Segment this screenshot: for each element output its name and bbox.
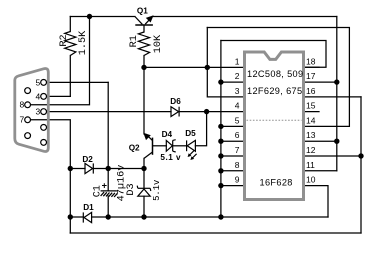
svg-text:D1: D1 xyxy=(83,203,94,212)
svg-text:16F628: 16F628 xyxy=(260,178,293,188)
resistor R1 xyxy=(138,32,149,56)
svg-text:5: 5 xyxy=(235,115,240,125)
svg-text:8: 8 xyxy=(19,100,24,110)
svg-text:5.1v: 5.1v xyxy=(152,180,162,201)
wire C1 riser x108 (pin5 down to D2 row, C1, mid bus) xyxy=(107,82,109,217)
svg-text:1: 1 xyxy=(235,56,240,66)
junction riser A / pin13 xyxy=(334,139,339,144)
junction D2 row / C1 xyxy=(106,166,111,171)
svg-text:5: 5 xyxy=(35,77,40,87)
wire pin 12 stub xyxy=(304,155,361,157)
DB9 pin 1 xyxy=(41,140,47,146)
svg-text:D5: D5 xyxy=(185,129,196,138)
diode D3 (zener) xyxy=(137,186,151,197)
capacitor C1 xyxy=(101,190,117,192)
junction mid bus left xyxy=(68,214,73,219)
svg-text:5.1 v: 5.1 v xyxy=(160,153,181,162)
svg-text:D3: D3 xyxy=(126,183,137,195)
wire net VDD rail (to pin 14) xyxy=(207,28,349,127)
junction bus / pin8 xyxy=(218,168,223,173)
svg-text:D6: D6 xyxy=(170,97,181,106)
IC U1 body xyxy=(245,52,304,200)
DB9 connector shell xyxy=(15,68,49,151)
wire pin 15 short stub xyxy=(304,111,319,113)
svg-text:4: 4 xyxy=(235,101,240,111)
junction mid bus / C1 xyxy=(106,214,111,219)
resistor R2 xyxy=(65,32,76,56)
svg-text:12F629, 675: 12F629, 675 xyxy=(247,86,302,96)
DB9 pin 4 xyxy=(41,94,47,100)
svg-text:47µ16v: 47µ16v xyxy=(116,165,127,202)
transistor Q1 xyxy=(135,17,153,26)
svg-text:13: 13 xyxy=(306,130,316,140)
DB9 pin 6 xyxy=(25,133,31,139)
junction riser C / pin12 xyxy=(358,153,363,158)
wire net riser x207 (VDD rail to pin1 row to pin 3) xyxy=(207,28,244,97)
DB9 pin 7 xyxy=(25,117,31,123)
svg-text:2: 2 xyxy=(235,71,240,81)
junction D6 / pin4 xyxy=(204,109,209,114)
wire mid bus y217 xyxy=(70,216,328,218)
svg-text:Q2: Q2 xyxy=(129,143,140,152)
wire right riser C (pin 16 down to bottom bus) xyxy=(360,97,362,233)
svg-text:12C508, 509: 12C508, 509 xyxy=(247,69,303,79)
wire pin 5 stub xyxy=(221,125,244,127)
wire D2 row xyxy=(70,168,144,170)
diode D5 (LED) xyxy=(187,140,197,159)
svg-text:3: 3 xyxy=(235,86,240,96)
wire riser pin4-dot down to D5 xyxy=(195,112,206,146)
svg-text:14: 14 xyxy=(306,115,316,125)
diode D4 (zener) xyxy=(166,140,175,152)
capacitor C1 hatched plate xyxy=(101,192,118,197)
wire top rail right segment (Q1 emitter to right riser) xyxy=(153,16,337,18)
svg-text:D2: D2 xyxy=(82,155,93,164)
svg-text:R2: R2 xyxy=(59,34,70,46)
svg-text:15: 15 xyxy=(306,101,316,111)
junction bus / pin9 xyxy=(218,183,223,188)
wire R2 top lead xyxy=(69,17,71,32)
svg-text:C1: C1 xyxy=(93,185,104,197)
DB9 pin 9 xyxy=(25,88,31,94)
svg-text:6: 6 xyxy=(235,130,240,140)
svg-text:7: 7 xyxy=(19,115,24,125)
DB9 pin 5 xyxy=(41,80,47,86)
svg-text:Q1: Q1 xyxy=(137,6,148,15)
wire D4 to Q2 base xyxy=(153,145,166,147)
junction D2 row left xyxy=(68,166,73,171)
wire pin 1 row (R1 bottom to IC pin 1) xyxy=(144,66,244,68)
DB9 pin 2 xyxy=(41,125,47,131)
junction mid bus / GND bus riser xyxy=(218,214,223,219)
svg-text:16: 16 xyxy=(306,86,316,96)
DB9 pin 3 xyxy=(41,109,47,115)
wire D5 to D4 link xyxy=(173,145,187,147)
wire pin 7 stub xyxy=(221,155,244,157)
diode D2 xyxy=(85,163,93,173)
wire R1 bottom lead to pin1 row and down to Q2 emitter xyxy=(143,56,145,135)
wire pin 16 stub to riser C xyxy=(304,96,361,98)
svg-text:10: 10 xyxy=(306,175,316,185)
junction bus / pin6 xyxy=(218,139,223,144)
junction bus / pin2 xyxy=(218,79,223,84)
svg-text:10K: 10K xyxy=(153,34,164,53)
wire pin 8 stub xyxy=(221,170,244,172)
svg-text:7: 7 xyxy=(235,145,240,155)
wire DB9 pin4 row to R2 bottom xyxy=(47,95,71,97)
wire pin 9 stub xyxy=(221,185,244,187)
svg-text:1.5K: 1.5K xyxy=(78,30,89,55)
junction top rail / pin8 riser xyxy=(87,14,92,19)
junction D2 row / Q2 collector xyxy=(141,166,146,171)
wire pin 17 stub to riser A xyxy=(304,81,337,83)
transistor Q2 xyxy=(144,134,153,158)
DB9 pin 8 xyxy=(25,102,31,108)
svg-text:11: 11 xyxy=(306,160,315,170)
IC socket divider (8-pin limit, dashed) xyxy=(247,119,302,121)
svg-text:18: 18 xyxy=(306,56,316,66)
wire GND bus riser x221 xyxy=(220,41,222,218)
svg-text:4: 4 xyxy=(35,91,40,101)
wire R2 bottom lead xyxy=(69,56,71,97)
wire pin 18 number underline xyxy=(304,66,319,68)
wire DB9 pin7 row down left column xyxy=(31,120,71,217)
svg-text:D4: D4 xyxy=(162,130,173,139)
junction x207 riser / pin1 row xyxy=(205,65,210,70)
diode D6 xyxy=(171,107,179,117)
wire bottom bus xyxy=(70,232,361,234)
svg-text:17: 17 xyxy=(306,71,316,81)
wire right riser A (top rail down to pin 11) xyxy=(336,17,338,171)
junction bus / pin7 xyxy=(218,153,223,158)
wire D3 leads xyxy=(143,169,145,218)
wire pin 11 stub xyxy=(304,170,337,172)
wire DB9 pin5 row to C1 riser xyxy=(47,81,109,83)
wire left drop to bottom bus xyxy=(69,217,71,233)
junction R1 bottom / pin1 row xyxy=(141,65,146,70)
wire Q2 collector down to D2 row xyxy=(143,158,145,168)
wire TxD row DB9 pin3 to D6 to IC pin 4 xyxy=(47,111,244,113)
junction mid bus / D3 xyxy=(141,214,146,219)
svg-text:9: 9 xyxy=(235,175,240,185)
wire Q1 base lead xyxy=(143,25,145,32)
wire top rail left segment (R2 top to Q1 collector) xyxy=(70,16,135,18)
wire pin 2 stub xyxy=(221,81,244,83)
svg-text:R1: R1 xyxy=(129,35,140,47)
wire pin 13 stub to riser A xyxy=(304,140,337,142)
svg-text:8: 8 xyxy=(235,160,240,170)
svg-text:12: 12 xyxy=(306,145,316,155)
svg-text:3: 3 xyxy=(35,107,40,117)
wire net GND rail (to pin 18) xyxy=(221,41,326,68)
diode D1 xyxy=(83,212,91,222)
wire DB9 pin8 row riser to top rail xyxy=(31,17,90,105)
junction bus / pin5 xyxy=(218,124,223,129)
junction riser A / pin17 xyxy=(334,79,339,84)
wire pin 10 to mid bus xyxy=(304,186,328,217)
wire pin 6 stub xyxy=(221,140,244,142)
